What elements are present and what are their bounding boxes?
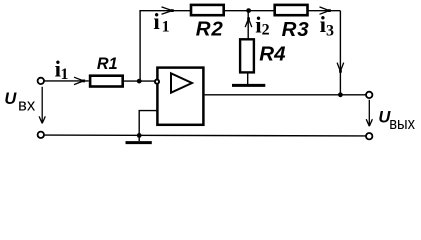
wire feedback vertical from top rail to inverting node xyxy=(139,11,141,81)
svg-text:U: U xyxy=(4,90,17,108)
terminal output top xyxy=(366,92,372,98)
node dot ground junction on bottom rail xyxy=(137,133,142,138)
terminal input bottom xyxy=(38,132,44,138)
arrow (down) on right vertical wire xyxy=(337,63,344,73)
terminal input top xyxy=(38,78,44,84)
arrow U_vh xyxy=(39,87,45,124)
wire output rail xyxy=(205,94,366,96)
op-amp triangle symbol xyxy=(171,73,192,92)
svg-text:вых: вых xyxy=(389,114,415,133)
svg-text:R4: R4 xyxy=(259,42,286,65)
svg-text:R3: R3 xyxy=(282,18,310,41)
node junction dot (R2/R3/R4) xyxy=(246,8,251,13)
wire bottom rail xyxy=(44,134,366,137)
wire stub R4 to ground xyxy=(247,73,249,84)
svg-text:вх: вх xyxy=(18,95,36,114)
resistor R2 xyxy=(191,5,224,15)
arrow i1 on top rail xyxy=(162,7,174,14)
node dot inverting input xyxy=(137,79,142,84)
wire stub from node down to R4 xyxy=(247,11,249,39)
wire top rail xyxy=(139,10,340,12)
svg-text:R2: R2 xyxy=(196,18,224,41)
wire right vertical xyxy=(339,11,341,95)
arrow i3 on top rail xyxy=(320,7,331,14)
wire R1 to inverting input xyxy=(124,80,155,82)
svg-text:R1: R1 xyxy=(97,55,118,73)
terminal output bottom xyxy=(366,133,372,139)
op-amp U1 body xyxy=(157,68,203,125)
arrow i1 on input wire xyxy=(74,77,85,84)
wire input to R1 xyxy=(44,80,89,82)
arrow i2 pointing up xyxy=(245,17,252,27)
node dot output/feedback junction xyxy=(338,92,343,97)
resistor R4 xyxy=(240,39,254,72)
op-amp inverting input bubble xyxy=(155,80,159,84)
ground under R4 xyxy=(232,84,265,87)
resistor R3 xyxy=(275,5,308,15)
arrow U_vyh xyxy=(366,100,372,126)
resistor R1 xyxy=(90,76,123,87)
wire non-inverting input xyxy=(139,111,157,136)
ground on bottom rail xyxy=(138,135,140,141)
